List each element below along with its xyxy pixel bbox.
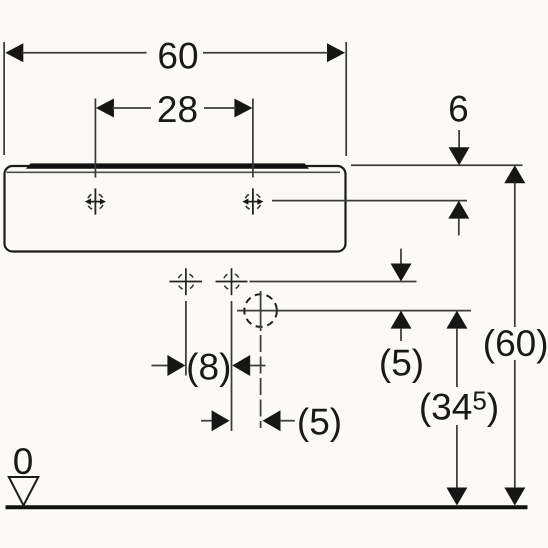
- svg-text:6: 6: [448, 88, 469, 129]
- svg-text:(5): (5): [297, 402, 342, 443]
- svg-text:(5): (5): [379, 343, 424, 384]
- svg-text:(8): (8): [186, 346, 231, 387]
- svg-text:0: 0: [13, 441, 34, 482]
- svg-text:(345): (345): [419, 386, 499, 428]
- svg-text:(60): (60): [483, 323, 548, 364]
- svg-text:28: 28: [157, 89, 198, 130]
- svg-text:60: 60: [157, 36, 198, 77]
